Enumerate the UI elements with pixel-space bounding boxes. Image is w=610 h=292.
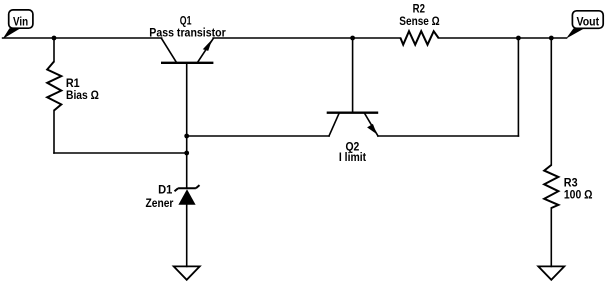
svg-text:Sense Ω: Sense Ω: [399, 16, 439, 28]
wire Q1 base down to D1: [186, 63, 188, 188]
net label Vin: [3, 10, 33, 39]
zener diode D1: [175, 185, 200, 205]
wire Q1 base node to Q2 collector: [187, 135, 329, 137]
svg-text:Bias Ω: Bias Ω: [66, 90, 99, 102]
wire D1 anode to ground: [186, 205, 188, 267]
ground below D1: [174, 266, 200, 279]
svg-text:R1: R1: [66, 78, 80, 90]
svg-text:R2: R2: [413, 4, 425, 16]
resistor R2: [401, 31, 439, 45]
transistor Q1: [161, 39, 213, 63]
wire top-left from Vin to Q1 collector: [3, 37, 162, 39]
wire right riser up to top net: [517, 38, 519, 136]
node at Vin / R1: [52, 36, 57, 41]
wire R2 to Vout: [439, 37, 567, 39]
transistor Q2: [327, 113, 379, 136]
wire Q1 emitter to R2: [213, 37, 400, 39]
node at right riser on top net: [516, 36, 521, 41]
svg-text:D1: D1: [158, 185, 173, 197]
node at Q1 base / Q2 collector: [184, 134, 189, 139]
svg-text:Zener: Zener: [146, 198, 174, 210]
wire R1 bottom lead: [53, 111, 55, 154]
net label Vout: [566, 11, 603, 39]
svg-text:100 Ω: 100 Ω: [564, 190, 593, 202]
wire R1 top lead: [53, 38, 55, 62]
wire R1 bottom to Q1 base node: [54, 152, 187, 154]
ground below R3: [538, 266, 564, 279]
svg-text:Q1: Q1: [180, 16, 192, 28]
node at Q1 base / R1 bottom: [184, 151, 189, 156]
svg-text:Vin: Vin: [13, 16, 28, 28]
node at R3 on top net: [549, 36, 554, 41]
resistor R1: [47, 62, 61, 111]
svg-text:R3: R3: [564, 178, 578, 190]
wire Q2 base lead: [352, 38, 354, 112]
node at Q2 base on top net: [350, 36, 355, 41]
svg-text:Vout: Vout: [577, 17, 600, 29]
wire Q2 emitter to right riser: [378, 135, 518, 137]
wire R3 top lead: [550, 38, 552, 165]
wire R3 bottom lead to ground: [550, 208, 552, 266]
svg-text:Pass transistor: Pass transistor: [149, 27, 226, 39]
resistor R3: [544, 165, 558, 208]
svg-text:I limit: I limit: [339, 152, 366, 164]
